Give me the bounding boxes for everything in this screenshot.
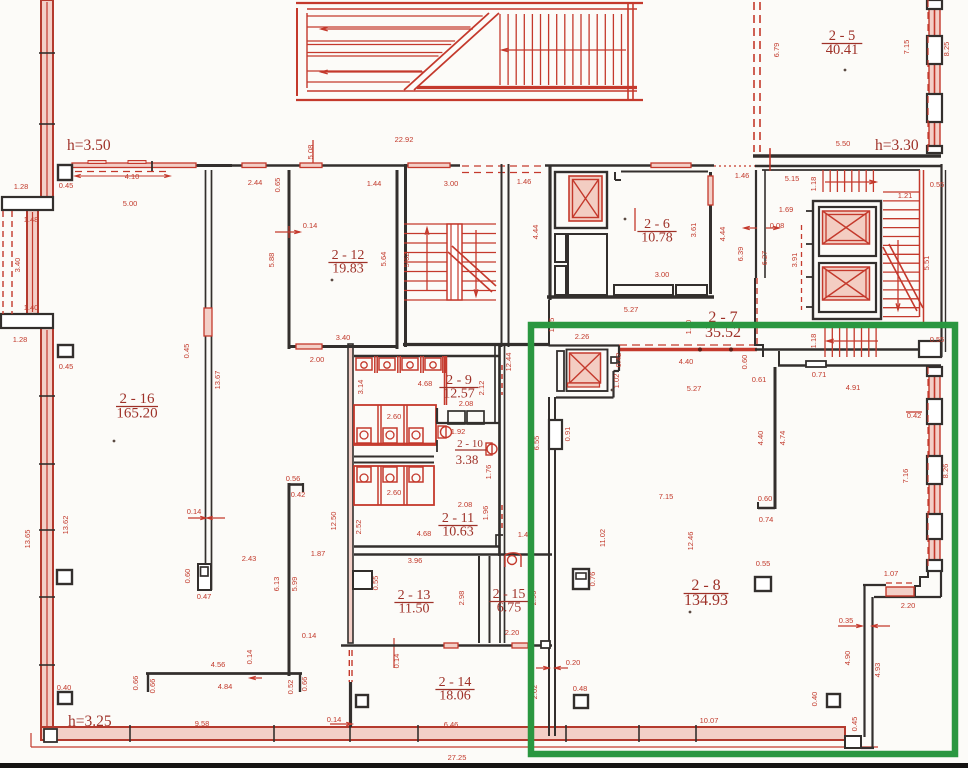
svg-text:6.75: 6.75 [497, 600, 522, 615]
svg-text:2.20: 2.20 [505, 628, 520, 637]
svg-text:1.69: 1.69 [779, 205, 794, 214]
svg-text:4.68: 4.68 [417, 529, 432, 538]
svg-text:8.25: 8.25 [942, 42, 951, 57]
svg-text:4.74: 4.74 [778, 431, 787, 446]
svg-text:4.44: 4.44 [718, 227, 727, 242]
svg-text:1.48: 1.48 [24, 215, 39, 224]
svg-text:5.62: 5.62 [402, 253, 411, 268]
svg-text:1.76: 1.76 [484, 465, 493, 480]
svg-text:19.83: 19.83 [332, 261, 364, 276]
svg-text:0.60: 0.60 [740, 355, 749, 370]
svg-text:5.50: 5.50 [836, 139, 851, 148]
svg-text:4.90: 4.90 [843, 651, 852, 666]
svg-text:7.15: 7.15 [659, 492, 674, 501]
svg-text:1.28: 1.28 [13, 335, 28, 344]
svg-text:0.55: 0.55 [756, 559, 771, 568]
svg-text:0.45: 0.45 [59, 181, 74, 190]
svg-text:27.25: 27.25 [448, 753, 467, 762]
svg-text:0.47: 0.47 [197, 592, 212, 601]
svg-text:0.60: 0.60 [758, 494, 773, 503]
svg-text:4.56: 4.56 [211, 660, 226, 669]
svg-text:2 - 10: 2 - 10 [457, 438, 483, 450]
svg-text:22.92: 22.92 [395, 135, 414, 144]
svg-text:5.64: 5.64 [379, 252, 388, 267]
svg-text:5.27: 5.27 [624, 305, 639, 314]
svg-text:1.46: 1.46 [735, 171, 750, 180]
svg-text:0.14: 0.14 [245, 650, 254, 665]
svg-text:13.65: 13.65 [23, 530, 32, 549]
svg-text:5.08: 5.08 [306, 145, 315, 160]
svg-text:7.16: 7.16 [901, 469, 910, 484]
svg-text:0.42: 0.42 [907, 411, 922, 420]
svg-text:3.61: 3.61 [689, 223, 698, 238]
svg-text:0.40: 0.40 [57, 683, 72, 692]
svg-text:5.51: 5.51 [922, 256, 931, 271]
svg-text:4.40: 4.40 [679, 357, 694, 366]
svg-text:0.42: 0.42 [291, 490, 306, 499]
svg-text:0.74: 0.74 [759, 515, 774, 524]
svg-text:0.52: 0.52 [286, 680, 295, 695]
svg-text:2.26: 2.26 [575, 332, 590, 341]
svg-text:6.13: 6.13 [272, 577, 281, 592]
svg-text:1.28: 1.28 [14, 182, 29, 191]
svg-text:13.67: 13.67 [213, 371, 222, 390]
svg-text:4.10: 4.10 [125, 172, 140, 181]
svg-text:0.66: 0.66 [148, 679, 157, 694]
svg-text:8.26: 8.26 [941, 464, 950, 479]
svg-text:2.60: 2.60 [387, 488, 402, 497]
svg-text:3.96: 3.96 [408, 556, 423, 565]
svg-text:1.46: 1.46 [517, 177, 532, 186]
svg-text:0.14: 0.14 [302, 631, 317, 640]
svg-text:2.08: 2.08 [458, 500, 473, 509]
svg-text:0.48: 0.48 [573, 684, 588, 693]
svg-text:3.40: 3.40 [13, 258, 22, 273]
svg-text:0.08: 0.08 [770, 221, 785, 230]
svg-text:5.00: 5.00 [123, 199, 138, 208]
svg-text:2.44: 2.44 [248, 178, 263, 187]
svg-text:5.88: 5.88 [267, 253, 276, 268]
svg-text:0.20: 0.20 [566, 658, 581, 667]
svg-text:5.27: 5.27 [687, 384, 702, 393]
svg-text:0.66: 0.66 [300, 677, 309, 692]
svg-text:6.39: 6.39 [736, 247, 745, 262]
svg-text:0.55: 0.55 [930, 180, 945, 189]
svg-text:2.12: 2.12 [477, 381, 486, 396]
svg-text:0.55: 0.55 [930, 335, 945, 344]
svg-text:4.44: 4.44 [531, 225, 540, 240]
svg-text:0.55: 0.55 [371, 576, 380, 591]
svg-text:6.79: 6.79 [772, 43, 781, 58]
svg-text:11.50: 11.50 [399, 601, 430, 616]
svg-text:2.52: 2.52 [354, 520, 363, 535]
svg-text:h=3.30: h=3.30 [875, 137, 919, 154]
svg-text:0.76: 0.76 [588, 572, 597, 587]
svg-text:9.58: 9.58 [195, 719, 210, 728]
svg-text:2.98: 2.98 [457, 591, 466, 606]
svg-text:10.63: 10.63 [442, 524, 474, 539]
svg-text:10.78: 10.78 [641, 230, 673, 245]
svg-text:0.45: 0.45 [850, 717, 859, 732]
svg-text:0.45: 0.45 [59, 362, 74, 371]
svg-text:3.38: 3.38 [456, 452, 479, 467]
svg-text:0.14: 0.14 [392, 654, 401, 669]
svg-text:18.06: 18.06 [439, 688, 471, 703]
svg-text:0.40: 0.40 [810, 692, 819, 707]
svg-text:2.00: 2.00 [310, 355, 325, 364]
svg-text:0.42: 0.42 [614, 353, 623, 368]
svg-text:0.60: 0.60 [183, 569, 192, 584]
svg-text:1.02: 1.02 [612, 374, 621, 389]
svg-text:0.14: 0.14 [303, 221, 318, 230]
svg-text:2.08: 2.08 [459, 399, 474, 408]
svg-text:13.62: 13.62 [61, 516, 70, 535]
svg-text:134.93: 134.93 [684, 592, 728, 609]
svg-text:6.46: 6.46 [444, 720, 459, 729]
svg-text:12.44: 12.44 [504, 353, 513, 372]
svg-text:0.91: 0.91 [563, 427, 572, 442]
svg-text:2.60: 2.60 [387, 412, 402, 421]
svg-text:0.35: 0.35 [839, 616, 854, 625]
svg-text:4.91: 4.91 [846, 383, 861, 392]
svg-text:0.45: 0.45 [182, 344, 191, 359]
svg-text:h=3.50: h=3.50 [67, 137, 111, 154]
svg-text:3.14: 3.14 [356, 380, 365, 395]
svg-text:h=3.25: h=3.25 [68, 713, 112, 730]
svg-text:11.02: 11.02 [598, 529, 607, 547]
svg-text:6.27: 6.27 [760, 251, 769, 266]
svg-text:1.92: 1.92 [451, 427, 466, 436]
svg-text:40.41: 40.41 [826, 42, 859, 58]
svg-text:1.21: 1.21 [898, 191, 913, 200]
svg-text:1.18: 1.18 [809, 334, 818, 349]
svg-text:0.65: 0.65 [273, 178, 282, 193]
svg-text:0.56: 0.56 [286, 474, 301, 483]
svg-text:1.07: 1.07 [884, 569, 899, 578]
svg-text:4.40: 4.40 [756, 431, 765, 446]
svg-text:0.61: 0.61 [752, 375, 767, 384]
svg-text:5.15: 5.15 [785, 174, 800, 183]
svg-text:3.00: 3.00 [655, 270, 670, 279]
svg-text:0.14: 0.14 [187, 507, 202, 516]
svg-text:4.84: 4.84 [218, 682, 233, 691]
svg-text:5.99: 5.99 [290, 577, 299, 592]
svg-text:1.96: 1.96 [481, 506, 490, 521]
svg-text:10.07: 10.07 [700, 716, 719, 725]
svg-text:12.46: 12.46 [686, 532, 695, 551]
svg-text:4.68: 4.68 [418, 379, 433, 388]
svg-text:2.20: 2.20 [901, 601, 916, 610]
svg-text:3.91: 3.91 [790, 253, 799, 268]
svg-text:7.15: 7.15 [902, 40, 911, 55]
svg-text:1.18: 1.18 [809, 177, 818, 192]
svg-text:1.40: 1.40 [24, 303, 39, 312]
svg-text:0.71: 0.71 [812, 370, 827, 379]
svg-text:4.93: 4.93 [873, 663, 882, 678]
svg-text:2.43: 2.43 [242, 554, 257, 563]
svg-text:3.00: 3.00 [444, 179, 459, 188]
svg-text:1.44: 1.44 [367, 179, 382, 188]
svg-text:0.14: 0.14 [327, 715, 342, 724]
svg-text:165.20: 165.20 [116, 405, 157, 421]
svg-text:0.66: 0.66 [131, 676, 140, 691]
svg-text:1.87: 1.87 [311, 549, 326, 558]
svg-text:12.50: 12.50 [329, 512, 338, 531]
svg-text:3.40: 3.40 [336, 333, 351, 342]
